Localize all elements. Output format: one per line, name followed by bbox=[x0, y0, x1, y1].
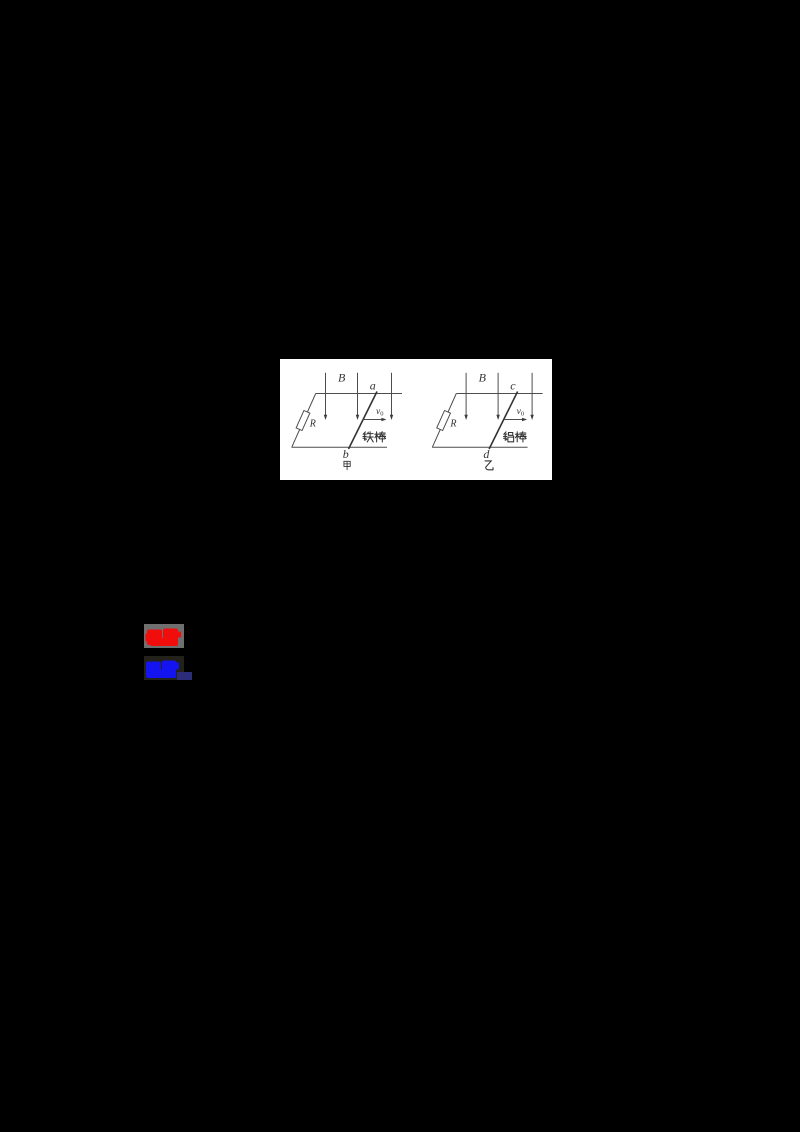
svg-text:d: d bbox=[483, 447, 490, 461]
svg-text:R: R bbox=[449, 418, 456, 429]
svg-text:a: a bbox=[370, 378, 376, 392]
svg-text:b: b bbox=[343, 447, 349, 461]
svg-text:B: B bbox=[338, 371, 346, 385]
svg-text:v0: v0 bbox=[517, 407, 524, 418]
svg-text:v0: v0 bbox=[376, 407, 383, 418]
svg-text:c: c bbox=[510, 378, 516, 392]
svg-text:R: R bbox=[309, 418, 316, 429]
svg-text:B: B bbox=[479, 371, 487, 385]
